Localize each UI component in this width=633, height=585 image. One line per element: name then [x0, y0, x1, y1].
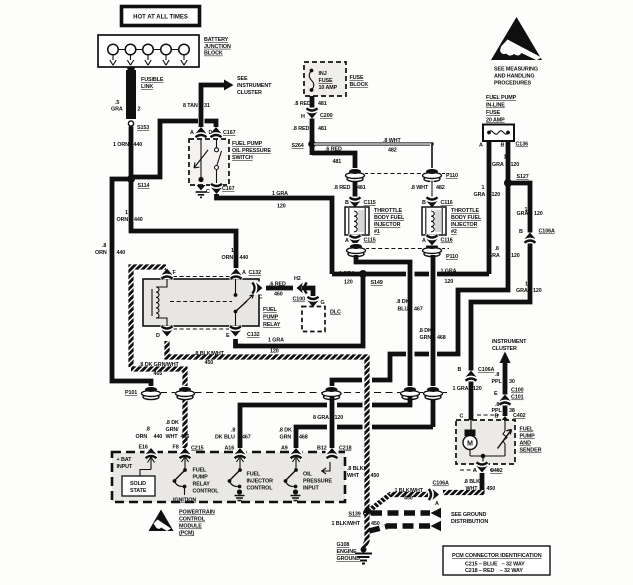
- svg-text:FUEL PUMP: FUEL PUMP: [232, 141, 263, 147]
- svg-text:SEE: SEE: [237, 76, 248, 82]
- svg-text:1 BLK/WHT: 1 BLK/WHT: [332, 521, 361, 527]
- svg-text:S153: S153: [137, 125, 149, 131]
- svg-text:FUSE: FUSE: [486, 110, 500, 116]
- svg-text:STATE: STATE: [130, 488, 147, 494]
- svg-text:GROUND: GROUND: [337, 556, 361, 562]
- svg-text:P101: P101: [125, 390, 137, 396]
- svg-text:468: 468: [437, 335, 446, 341]
- svg-text:CLUSTER: CLUSTER: [492, 346, 517, 352]
- svg-text:8 GRA: 8 GRA: [313, 415, 329, 421]
- svg-text:ORN: ORN: [95, 250, 107, 256]
- svg-text:A16: A16: [225, 446, 235, 452]
- svg-text:B12: B12: [317, 446, 327, 452]
- svg-text:481: 481: [357, 185, 366, 191]
- switch internals: [200, 139, 202, 178]
- svg-text:FUEL PUMP: FUEL PUMP: [486, 95, 517, 101]
- fusible link: [126, 70, 136, 119]
- svg-text:B: B: [458, 367, 462, 373]
- .8 DK GRN 468 net: to A9: [296, 427, 433, 449]
- svg-text:.5: .5: [115, 100, 119, 106]
- svg-text:120: 120: [277, 204, 286, 210]
- svg-text:H: H: [301, 114, 305, 120]
- svg-text:CONTROL: CONTROL: [193, 489, 220, 495]
- svg-text:.8: .8: [495, 246, 499, 252]
- svg-text:PROCEDURES: PROCEDURES: [494, 81, 532, 87]
- svg-text:E: E: [494, 391, 498, 397]
- svg-text:MODULE: MODULE: [179, 524, 202, 530]
- wire S153 to S114: [129, 127, 134, 180]
- wire injector1 A to DK BLU net: [356, 255, 410, 388]
- svg-text:.8 WHT: .8 WHT: [411, 185, 429, 191]
- svg-text:120: 120: [511, 162, 520, 168]
- node S139: [363, 509, 371, 517]
- svg-text:B: B: [345, 200, 349, 206]
- svg-text:FUSIBLE: FUSIBLE: [141, 77, 164, 83]
- svg-text:C132: C132: [249, 270, 262, 276]
- svg-text:C115: C115: [364, 200, 376, 206]
- wire to DLC: [302, 288, 313, 300]
- connector row P110 top: [364, 173, 449, 175]
- svg-text:A9: A9: [281, 446, 288, 452]
- svg-text:C: C: [259, 295, 263, 301]
- svg-text:GRA: GRA: [474, 192, 486, 198]
- svg-text:120: 120: [270, 349, 279, 355]
- svg-text:S127: S127: [517, 174, 529, 180]
- svg-text:C218: C218: [339, 446, 352, 452]
- connector A C402: [460, 469, 499, 471]
- svg-text:#1: #1: [374, 229, 380, 235]
- svg-text:.8 BLK/: .8 BLK/: [464, 479, 482, 485]
- svg-text:468: 468: [299, 435, 308, 441]
- PCM CONNECTOR IDENTIFICATION: [443, 546, 550, 575]
- svg-text:POWERTRAIN: POWERTRAIN: [179, 510, 215, 516]
- svg-text:.8 BLK/WHT: .8 BLK/WHT: [194, 351, 225, 357]
- hatched ground run to S139: [443, 490, 482, 493]
- svg-text:G: G: [321, 300, 325, 306]
- svg-text:DK BLU: DK BLU: [215, 435, 235, 441]
- connector B C106A upper: [524, 233, 537, 244]
- PCM terminal A9: [290, 448, 303, 459]
- svg-text:.8: .8: [231, 428, 235, 434]
- svg-text:120: 120: [335, 415, 344, 421]
- svg-text:GRA: GRA: [516, 288, 528, 294]
- svg-text:A: A: [190, 130, 194, 136]
- svg-text:OIL: OIL: [303, 472, 312, 478]
- ESD warning triangle: [491, 17, 542, 60]
- svg-text:INPUT: INPUT: [117, 464, 133, 470]
- svg-text:SEE GROUND: SEE GROUND: [451, 512, 486, 518]
- svg-text:BODY FUEL: BODY FUEL: [374, 215, 405, 221]
- svg-text:.8 RED: .8 RED: [293, 126, 310, 132]
- svg-text:.8 RED: .8 RED: [294, 101, 311, 107]
- battery junction block: [98, 35, 199, 67]
- svg-text:B: B: [501, 143, 505, 149]
- svg-text:1: 1: [125, 210, 128, 216]
- svg-text:.8 RED: .8 RED: [334, 185, 351, 191]
- svg-text:B: B: [519, 229, 523, 235]
- injector #1 body with coil: [345, 207, 369, 235]
- svg-text:FUSE: FUSE: [350, 75, 364, 81]
- svg-text:.8 BLK/: .8 BLK/: [347, 466, 365, 472]
- ESD symbol small: [149, 510, 174, 532]
- svg-text:S114: S114: [138, 183, 150, 189]
- svg-text:1 GRA: 1 GRA: [339, 271, 355, 277]
- svg-text:.8 DK GRN/WHT: .8 DK GRN/WHT: [139, 362, 180, 368]
- svg-text:THROTTLE: THROTTLE: [374, 208, 402, 214]
- svg-text:.6 RED: .6 RED: [325, 147, 342, 153]
- svg-text:C136: C136: [516, 142, 529, 148]
- svg-text:120: 120: [492, 192, 501, 198]
- svg-text:OIL PRESSURE: OIL PRESSURE: [232, 148, 271, 154]
- svg-text:465: 465: [181, 434, 190, 440]
- svg-text:C115: C115: [364, 238, 376, 244]
- svg-text:10 AMP: 10 AMP: [319, 85, 338, 91]
- terminal circles: [108, 44, 190, 55]
- ground distribution arrows: [371, 510, 430, 516]
- svg-text:PUMP: PUMP: [263, 315, 279, 321]
- svg-text:FUEL: FUEL: [520, 427, 534, 433]
- .8 DK BLU 467 net: connector to A16: [240, 397, 410, 449]
- svg-text:B: B: [495, 414, 499, 420]
- connector H C200: [306, 108, 319, 119]
- svg-text:8 TAN: 8 TAN: [183, 103, 198, 109]
- svg-text:PCM CONNECTOR IDENTIFICATION: PCM CONNECTOR IDENTIFICATION: [452, 553, 542, 559]
- svg-text:450: 450: [371, 521, 380, 527]
- svg-text:SEE MEASURING: SEE MEASURING: [494, 67, 538, 73]
- svg-text:THROTTLE: THROTTLE: [451, 208, 479, 214]
- PCM terminal A16: [234, 448, 247, 459]
- svg-text:.8 DK: .8 DK: [419, 328, 432, 334]
- svg-text:A: A: [435, 501, 439, 507]
- svg-text:PUMP: PUMP: [520, 434, 536, 440]
- svg-text:440: 440: [154, 434, 163, 440]
- wire .6 RED 460 relay C to C100: [266, 286, 293, 291]
- A9 driver: [293, 457, 300, 470]
- svg-text:INJECTOR: INJECTOR: [374, 222, 401, 228]
- svg-text:A: A: [422, 238, 426, 244]
- svg-text:1 BLK/WHT: 1 BLK/WHT: [395, 488, 424, 494]
- svg-text:450: 450: [487, 486, 496, 492]
- wire battery to fusible link: [127, 64, 135, 72]
- svg-text:C215 – BLUE – 32 WAY: C215 – BLUE – 32 WAY: [465, 562, 525, 568]
- svg-text:ORN: ORN: [222, 255, 234, 261]
- svg-text:GRN: GRN: [280, 435, 292, 441]
- terminal F: [161, 269, 174, 280]
- svg-text:CONTROL: CONTROL: [247, 486, 274, 492]
- down arrows inside block: [110, 55, 187, 65]
- svg-text:PUMP: PUMP: [193, 475, 209, 481]
- svg-text:450: 450: [404, 496, 413, 502]
- svg-text:1: 1: [525, 282, 528, 288]
- node S153: [128, 121, 133, 126]
- svg-text:1 GRA: 1 GRA: [441, 269, 457, 275]
- svg-text:467: 467: [414, 307, 423, 313]
- svg-text:CONTROL: CONTROL: [179, 517, 206, 523]
- relay switch: [235, 279, 237, 294]
- svg-text:.8 DK: .8 DK: [396, 299, 409, 305]
- svg-text:RELAY: RELAY: [193, 482, 211, 488]
- svg-text:C402: C402: [490, 468, 503, 474]
- svg-text:1 GRA: 1 GRA: [272, 191, 288, 197]
- PCM terminal F8: [179, 448, 192, 459]
- node S264: [308, 140, 316, 148]
- terminal D: [161, 326, 174, 337]
- svg-text:A: A: [479, 143, 483, 149]
- svg-text:440: 440: [240, 255, 249, 261]
- svg-text:INJ: INJ: [319, 71, 327, 77]
- svg-text:C167: C167: [222, 186, 235, 192]
- DLC box: [302, 307, 325, 332]
- svg-text:440: 440: [117, 250, 126, 256]
- switch internal ground: [198, 177, 203, 182]
- wire .8 RED 481 to injector 1: [312, 153, 355, 169]
- node S127: [504, 179, 512, 187]
- wire relay E to S149: [236, 276, 364, 346]
- wire S114 left down (.8 ORN 440): [112, 179, 151, 390]
- svg-text:C: C: [460, 414, 464, 420]
- connector B C402: [499, 416, 512, 427]
- svg-text:C402: C402: [513, 413, 526, 419]
- svg-text:1 GRA: 1 GRA: [453, 386, 469, 392]
- relay coil: [156, 279, 167, 287]
- svg-text:.8 WHT: .8 WHT: [383, 138, 401, 144]
- svg-text:C167: C167: [223, 130, 236, 136]
- svg-text:E: E: [226, 333, 230, 339]
- svg-text:GRA: GRA: [488, 253, 500, 259]
- svg-text:A: A: [473, 468, 477, 474]
- svg-text:IN-LINE: IN-LINE: [486, 103, 505, 109]
- svg-text:120: 120: [511, 253, 520, 259]
- svg-text:#2: #2: [451, 229, 457, 235]
- B12 arrow: [321, 462, 330, 474]
- svg-text:DLC: DLC: [330, 310, 341, 316]
- F8 driver: [182, 457, 189, 470]
- pump internal junction to terminal A: [482, 456, 484, 464]
- terminal C: [252, 282, 263, 295]
- svg-text:GRN/: GRN/: [166, 427, 180, 433]
- connector A C106A: [428, 488, 439, 501]
- svg-text:M: M: [467, 441, 473, 448]
- svg-text:C100: C100: [293, 297, 306, 303]
- svg-text:WHT: WHT: [347, 473, 360, 479]
- connector H2 C100: [297, 282, 308, 295]
- svg-text:WHT: WHT: [166, 434, 179, 440]
- motor: [470, 420, 472, 430]
- svg-text:(PCM): (PCM): [179, 531, 194, 537]
- svg-text:FUEL: FUEL: [263, 307, 277, 313]
- injector #2 body with coil: [422, 207, 446, 235]
- svg-text:C106A: C106A: [539, 229, 555, 235]
- wire S114 down to relay A (1 ORN 440): [131, 179, 236, 268]
- ground G108 symbol: [361, 547, 367, 553]
- svg-text:.8 DK: .8 DK: [166, 420, 179, 426]
- svg-text:E16: E16: [139, 445, 148, 451]
- PCM terminal B12: [326, 448, 339, 459]
- svg-text:BLOCK: BLOCK: [350, 82, 369, 88]
- svg-text:C200: C200: [320, 113, 333, 119]
- svg-text:481: 481: [318, 126, 327, 132]
- A16 driver: [237, 457, 244, 470]
- svg-text:FUEL: FUEL: [247, 472, 261, 478]
- svg-text:C101: C101: [511, 395, 524, 401]
- terminal C bowtie: [210, 183, 223, 194]
- svg-text:C106A: C106A: [433, 481, 449, 487]
- wire 8 TAN 31 to instrument cluster: [201, 85, 224, 130]
- wire S127 right branch to C106A: [471, 183, 530, 420]
- svg-text:1 GRA: 1 GRA: [268, 338, 284, 344]
- svg-text:D: D: [209, 130, 213, 136]
- svg-text:PRESSURE: PRESSURE: [303, 479, 332, 485]
- svg-text:2: 2: [138, 107, 141, 113]
- svg-text:RELAY: RELAY: [263, 322, 281, 328]
- svg-text:ORN: ORN: [117, 217, 129, 223]
- svg-text:HOT AT ALL TIMES: HOT AT ALL TIMES: [133, 15, 188, 21]
- terminal E: [229, 326, 242, 337]
- svg-text:GRA: GRA: [111, 107, 123, 113]
- wire fuse B down (1 GRA 120): [332, 141, 508, 390]
- .8 BLK/WHT 450: relay D right and down to S139: [167, 341, 367, 513]
- svg-text:BODY FUEL: BODY FUEL: [451, 215, 482, 221]
- svg-text:120: 120: [473, 386, 482, 392]
- connector row P110 bottom: [365, 248, 449, 250]
- svg-text:G108: G108: [337, 542, 350, 548]
- svg-text:BLU: BLU: [398, 307, 409, 313]
- svg-text:31: 31: [204, 103, 210, 109]
- HOT AT ALL TIMES box: [122, 7, 200, 26]
- svg-text:C106A: C106A: [478, 367, 494, 373]
- terminal A: [230, 269, 243, 280]
- wire injector2 A to DK GRN net: [431, 255, 436, 427]
- svg-text:S149: S149: [371, 280, 383, 286]
- node S114: [127, 175, 135, 183]
- svg-text:C116: C116: [441, 200, 453, 206]
- node S149: [359, 270, 367, 278]
- svg-text:JUNCTION: JUNCTION: [204, 44, 231, 50]
- terminal D bowtie: [210, 127, 223, 138]
- svg-text:FUSE: FUSE: [319, 78, 333, 84]
- svg-text:BATTERY: BATTERY: [204, 37, 229, 43]
- svg-text:120: 120: [533, 288, 542, 294]
- svg-text:481: 481: [333, 159, 342, 165]
- svg-text:450: 450: [371, 473, 380, 479]
- svg-text:C100: C100: [511, 388, 524, 394]
- svg-text:ENGINE: ENGINE: [337, 549, 358, 555]
- svg-text:GRN: GRN: [420, 335, 432, 341]
- svg-text:120: 120: [445, 279, 454, 285]
- svg-text:450: 450: [205, 360, 214, 366]
- svg-text:D: D: [156, 333, 160, 339]
- svg-text:H2: H2: [294, 276, 301, 282]
- connector E C100/C101: [499, 395, 512, 406]
- wire switch C to 1 GRA 120 net: [217, 194, 333, 274]
- svg-text:120: 120: [344, 280, 353, 286]
- svg-text:120: 120: [534, 211, 543, 217]
- svg-text:CLUSTER: CLUSTER: [237, 90, 262, 96]
- svg-text:F8: F8: [173, 445, 179, 451]
- svg-text:467: 467: [242, 435, 251, 441]
- 1 GRA 120 horizontal bus: [332, 272, 489, 277]
- svg-text:ORN: ORN: [136, 434, 148, 440]
- svg-text:GRA: GRA: [517, 211, 529, 217]
- svg-text:P110: P110: [446, 173, 458, 179]
- svg-text:INSTRUMENT: INSTRUMENT: [492, 339, 527, 345]
- svg-text:P110: P110: [446, 254, 458, 260]
- svg-text:.8: .8: [146, 427, 150, 433]
- svg-text:1 ORN: 1 ORN: [113, 142, 129, 148]
- connector B C106A lower: [465, 371, 478, 382]
- svg-text:482: 482: [436, 185, 445, 191]
- svg-text:440: 440: [134, 217, 143, 223]
- terminal A bowtie: [195, 127, 208, 138]
- svg-text:C116: C116: [441, 238, 453, 244]
- svg-text:30: 30: [509, 379, 515, 385]
- svg-text:1: 1: [482, 185, 485, 191]
- wire S114 up right to switch D (1 ORN 440): [131, 121, 198, 177]
- svg-text:C218 – RED – 32 WAY: C218 – RED – 32 WAY: [465, 568, 523, 574]
- svg-text:C: C: [206, 189, 210, 195]
- wire .8 RED 481 down from fuse block: [310, 96, 315, 155]
- 8 GRA 120 wire into B12: [330, 397, 335, 449]
- svg-text:S264: S264: [292, 143, 304, 149]
- .8 DK GRN/WHT 465: relay F to P101 to PCM F8: [131, 267, 185, 390]
- svg-text:DISTRIBUTION: DISTRIBUTION: [451, 519, 488, 525]
- PCM terminal E16: [145, 448, 158, 459]
- svg-text:.8: .8: [495, 372, 499, 378]
- svg-text:A: A: [242, 270, 246, 276]
- svg-text:INJECTOR: INJECTOR: [247, 479, 274, 485]
- wire fuse A down (1 GRA 120): [487, 141, 492, 274]
- svg-text:465: 465: [154, 371, 163, 377]
- svg-text:FUEL: FUEL: [193, 468, 207, 474]
- wire .8 WHT 482 (hollow) to injector 2: [314, 144, 432, 169]
- svg-text:.6 RED: .6 RED: [269, 282, 286, 288]
- svg-text:440: 440: [134, 142, 143, 148]
- svg-text:1: 1: [504, 155, 507, 161]
- svg-text:INSTRUMENT: INSTRUMENT: [237, 83, 272, 89]
- svg-text:481: 481: [318, 101, 327, 107]
- svg-text:B: B: [422, 200, 426, 206]
- svg-text:.8 DK: .8 DK: [279, 428, 292, 434]
- S139 to engine ground: [364, 513, 368, 548]
- svg-text:460: 460: [274, 292, 283, 298]
- svg-text:+ BAT: + BAT: [117, 457, 133, 463]
- svg-text:LINK: LINK: [141, 84, 153, 90]
- mech link dashed: [170, 301, 232, 303]
- svg-text:20 AMP: 20 AMP: [486, 118, 505, 124]
- bus bar line: [107, 49, 190, 51]
- svg-text:482: 482: [388, 148, 397, 154]
- svg-text:INJECTOR: INJECTOR: [451, 222, 478, 228]
- svg-text:SENDER: SENDER: [520, 448, 542, 454]
- connector face dashes: [173, 276, 230, 278]
- svg-text:C215: C215: [191, 446, 204, 452]
- svg-text:C132: C132: [247, 332, 260, 338]
- svg-text:S139: S139: [349, 512, 361, 518]
- svg-text:AND HANDLING: AND HANDLING: [494, 74, 534, 80]
- svg-text:AND: AND: [520, 441, 532, 447]
- svg-text:IGNITION: IGNITION: [173, 498, 196, 504]
- svg-text:GRA: GRA: [492, 162, 504, 168]
- svg-text:INPUT: INPUT: [303, 486, 319, 492]
- svg-text:BLOCK: BLOCK: [204, 51, 223, 57]
- fuel pump and sender box: [456, 420, 515, 464]
- svg-text:.8: .8: [102, 243, 106, 249]
- sender variable resistor: [504, 420, 506, 431]
- svg-text:PPL: PPL: [492, 379, 503, 385]
- svg-text:SWITCH: SWITCH: [232, 155, 253, 161]
- svg-text:1: 1: [231, 248, 234, 254]
- svg-text:SOLID: SOLID: [130, 481, 146, 487]
